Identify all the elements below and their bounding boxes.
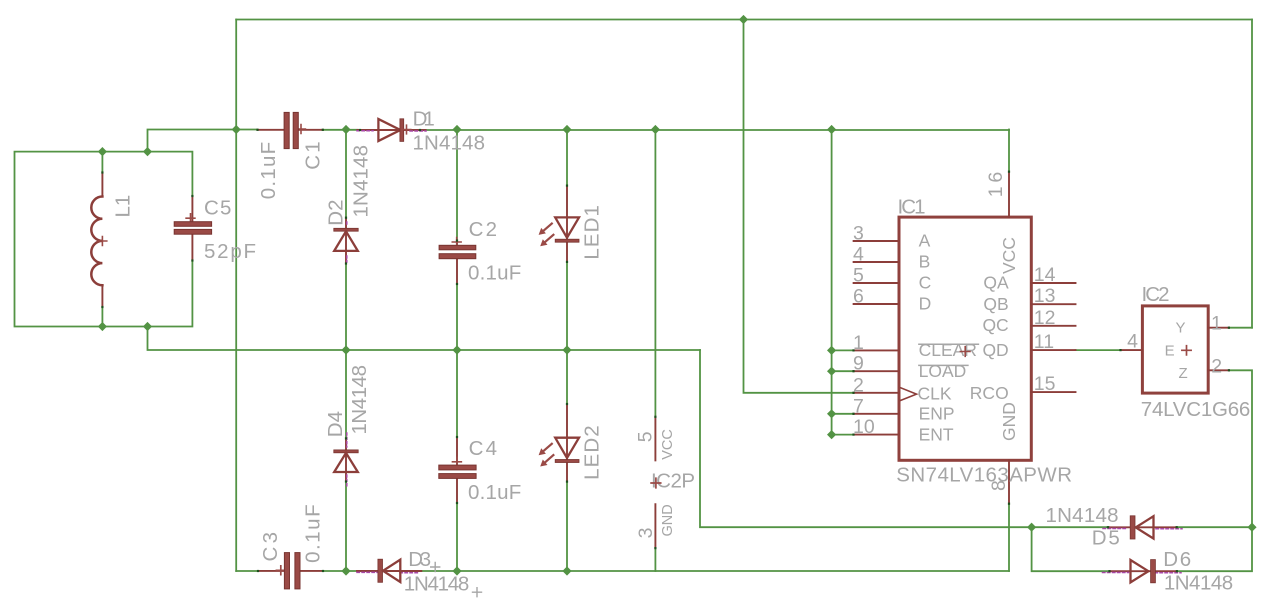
junction top rail / CLK branch <box>739 15 748 24</box>
svg-text:0.1uF: 0.1uF <box>302 504 325 563</box>
diode D6 <box>1103 548 1234 595</box>
wire L1 verticals <box>101 152 103 327</box>
svg-text:1N4148: 1N4148 <box>404 572 470 595</box>
pin stubs left <box>854 241 899 435</box>
capacitor C3 <box>258 504 325 588</box>
wire tank box <box>15 152 193 327</box>
junction y130 at C2 column <box>452 125 461 134</box>
junction tank box top at riser <box>143 147 152 156</box>
svg-text:0.1uF: 0.1uF <box>468 481 521 504</box>
junction tank box bottom at riser <box>143 322 152 331</box>
svg-text:0.1uF: 0.1uF <box>468 262 521 285</box>
svg-text:1N4148: 1N4148 <box>348 365 371 435</box>
junction bottom rail at C4 column <box>452 566 461 575</box>
junction y350 at LED column <box>562 345 571 354</box>
svg-text:D1: D1 <box>413 108 435 131</box>
diode D4 <box>324 365 371 487</box>
diode D1 <box>357 108 485 155</box>
wire IC2 pin1 link <box>1229 327 1252 329</box>
IC1 SN74LV163APWR <box>853 172 1076 504</box>
svg-text:E: E <box>1165 343 1175 360</box>
LED LED1 <box>539 186 604 262</box>
wire IC2 pin2 drop <box>1229 370 1252 527</box>
wire QD to IC2 pin4 <box>1076 349 1121 351</box>
junction tank box bottom at L1 <box>98 322 107 331</box>
svg-text:SN74LV163APWR: SN74LV163APWR <box>896 464 1072 487</box>
svg-text:1N4148: 1N4148 <box>1164 571 1233 594</box>
svg-text:7: 7 <box>853 395 864 417</box>
svg-text:1N4148: 1N4148 <box>349 145 372 218</box>
svg-text:10: 10 <box>853 416 875 438</box>
svg-text:C4: C4 <box>469 437 497 460</box>
wire y130 rail <box>148 130 1010 152</box>
svg-text:1: 1 <box>853 332 864 354</box>
svg-text:Y: Y <box>1176 320 1186 337</box>
svg-text:LED1: LED1 <box>581 205 604 260</box>
svg-text:IC2: IC2 <box>1142 283 1170 306</box>
svg-text:D2: D2 <box>325 199 348 225</box>
svg-text:B: B <box>919 252 931 272</box>
svg-text:A: A <box>919 231 931 251</box>
wire left pin bus <box>832 130 854 435</box>
wire D2/D4 column <box>345 130 347 572</box>
junction bus row pin9 <box>827 367 836 376</box>
clock triangle <box>900 388 916 401</box>
wire C2 column <box>456 130 458 572</box>
wire CLK path <box>744 20 854 393</box>
wire gnd8 riser <box>1008 504 1010 571</box>
svg-text:QC: QC <box>982 315 1008 335</box>
svg-text:3: 3 <box>635 528 657 539</box>
gnd pin 3 <box>654 504 656 548</box>
svg-text:C2: C2 <box>469 218 497 241</box>
svg-text:16: 16 <box>985 172 1007 198</box>
junction bus row pin1 <box>827 346 836 355</box>
wire y350 run <box>148 327 701 351</box>
wire D5 row <box>1032 526 1252 528</box>
junction D5 row right <box>1247 523 1256 532</box>
svg-text:C5: C5 <box>204 197 231 220</box>
wire LED column <box>566 130 568 572</box>
wire bottom rail <box>236 570 1009 572</box>
junction tank box top at L1 <box>98 147 107 156</box>
wire D6 row <box>1032 527 1252 571</box>
diode D3 <box>357 548 482 597</box>
svg-text:12: 12 <box>1034 307 1056 329</box>
junction y130 at LED1 column <box>562 125 571 134</box>
svg-text:IC1: IC1 <box>898 196 926 219</box>
wire top rail <box>236 19 1252 21</box>
junction bus row pin10 <box>827 430 836 439</box>
svg-text:IC2P: IC2P <box>651 470 695 493</box>
svg-text:D5: D5 <box>1092 527 1120 550</box>
svg-text:D: D <box>919 294 932 314</box>
svg-text:6: 6 <box>853 286 864 308</box>
junction y130 at pin bus <box>827 125 836 134</box>
svg-text:5: 5 <box>853 265 864 287</box>
svg-text:11: 11 <box>1034 331 1054 353</box>
svg-text:ENT: ENT <box>919 425 954 445</box>
svg-text:D3: D3 <box>408 548 431 571</box>
wire right vert top (to IC2 pin1) <box>1251 20 1253 328</box>
inductor L1 <box>91 173 134 308</box>
svg-text:4: 4 <box>853 244 864 266</box>
svg-text:VCC: VCC <box>999 237 1019 274</box>
vcc pin 5 <box>654 417 656 461</box>
svg-text:4: 4 <box>1127 331 1138 353</box>
svg-text:CLEAR: CLEAR <box>919 340 977 360</box>
junction bus row pin7 <box>827 409 836 418</box>
svg-text:9: 9 <box>853 353 864 375</box>
svg-text:RCO: RCO <box>970 383 1009 403</box>
svg-text:15: 15 <box>1034 373 1056 395</box>
junction y350 at D2/D4 column <box>341 345 350 354</box>
pin stubs right <box>1031 283 1075 392</box>
svg-text:1N4148: 1N4148 <box>413 131 486 154</box>
pin 16 vcc stub <box>1008 172 1010 218</box>
diode D5 <box>1046 504 1183 550</box>
capacitor C4 <box>439 437 522 504</box>
svg-text:3: 3 <box>853 223 864 245</box>
junction bottom rail at D column <box>341 566 350 575</box>
diode D2 <box>325 145 373 264</box>
svg-text:D4: D4 <box>324 411 347 437</box>
svg-text:CLK: CLK <box>918 383 952 403</box>
svg-text:1: 1 <box>1211 313 1222 335</box>
LED LED2 <box>539 404 604 482</box>
svg-text:C1: C1 <box>302 141 325 170</box>
pin stubs <box>1121 328 1229 371</box>
IC1 origin cross <box>960 347 970 357</box>
wire x700 drop to D5 row <box>700 350 1032 527</box>
svg-text:5: 5 <box>634 431 656 442</box>
wire vcc16 drop <box>1008 130 1010 172</box>
svg-text:QB: QB <box>983 294 1008 314</box>
svg-text:14: 14 <box>1034 264 1056 286</box>
svg-text:L1: L1 <box>112 195 135 218</box>
svg-text:QD: QD <box>982 340 1008 360</box>
junction y130 at x236 <box>232 125 241 134</box>
IC2 74LVC1G66 <box>1121 283 1251 421</box>
junction y130 at IC2P VCC column <box>651 125 660 134</box>
svg-text:2: 2 <box>853 374 864 396</box>
capacitor C2 <box>439 218 521 285</box>
svg-text:2: 2 <box>1211 355 1222 377</box>
capacitor C1 <box>257 112 325 199</box>
svg-text:8: 8 <box>988 480 1010 491</box>
junction y350 at C2/C4 column <box>452 345 461 354</box>
wire IC2P gnd col <box>654 548 656 571</box>
pin end dots <box>101 129 1230 573</box>
svg-text:ENP: ENP <box>919 404 955 424</box>
svg-text:QA: QA <box>983 273 1009 293</box>
svg-text:LED2: LED2 <box>581 425 604 480</box>
wire left vert x=236 <box>235 20 237 572</box>
origin cross <box>1182 346 1191 355</box>
svg-text:0.1uF: 0.1uF <box>257 142 280 200</box>
svg-text:Z: Z <box>1179 365 1188 382</box>
junction y130 at D2 column <box>341 125 350 134</box>
svg-text:74LVC1G66: 74LVC1G66 <box>1141 398 1251 421</box>
svg-text:GND: GND <box>999 402 1019 441</box>
IC2P power part <box>634 417 695 548</box>
svg-text:D6: D6 <box>1163 548 1191 571</box>
pin 8 gnd stub <box>1008 460 1010 503</box>
svg-text:GND: GND <box>660 504 676 536</box>
wire IC2P vcc col <box>654 130 656 417</box>
svg-text:VCC: VCC <box>660 429 676 460</box>
junction D5 row left <box>1027 523 1036 532</box>
capacitor C5 <box>174 196 256 263</box>
svg-text:C: C <box>919 273 932 293</box>
svg-text:52pF: 52pF <box>204 240 256 263</box>
svg-text:13: 13 <box>1034 285 1056 307</box>
svg-text:C3: C3 <box>259 532 282 562</box>
svg-text:1N4148: 1N4148 <box>1046 504 1119 527</box>
junction bottom rail at LED2 column <box>562 566 571 575</box>
svg-text:LOAD: LOAD <box>919 361 967 381</box>
